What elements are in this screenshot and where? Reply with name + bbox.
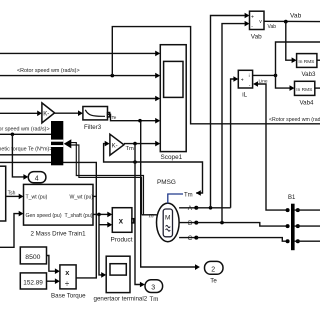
machine PMSG <box>157 179 193 242</box>
svg-text:152.89: 152.89 <box>23 279 43 286</box>
block Tsh (clipped at left edge) <box>0 166 16 221</box>
svg-text:Vab: Vab <box>268 24 277 30</box>
wire rotor speed bypass to right edge <box>112 27 320 124</box>
svg-text:PMSG: PMSG <box>157 179 176 186</box>
constant 152.89 <box>20 273 46 289</box>
svg-text:Te: Te <box>112 115 117 120</box>
wire B1 right outputs <box>295 210 320 241</box>
current measurement iL <box>238 70 252 98</box>
svg-text:K-: K- <box>43 111 49 117</box>
wire scope input 3 <box>0 96 160 102</box>
gain K- (gain1) <box>42 103 55 123</box>
RMS block Vab4 <box>295 81 320 106</box>
svg-text:B1: B1 <box>288 195 296 201</box>
constant 8500 <box>20 247 46 264</box>
wire gen speed input <box>0 211 24 248</box>
svg-text:Line: Line <box>259 79 268 85</box>
svg-text:<Rotor speed wm (rad/s)>: <Rotor speed wm (rad/s)> <box>0 127 50 133</box>
svg-text:Tsh: Tsh <box>8 190 16 196</box>
wire base torque line exiting left <box>0 162 96 278</box>
svg-text:Base Torque: Base Torque <box>51 293 86 300</box>
wire T_shaft riser to terminal2 <box>99 214 106 277</box>
node port A <box>179 205 198 212</box>
wire phase C to B1 <box>196 238 286 242</box>
wire Tm drop to outport 3 <box>135 144 145 288</box>
svg-text:In RMS: In RMS <box>296 87 312 93</box>
wire Vab + sense <box>211 13 250 208</box>
scope genertaor terminal2 <box>94 256 148 302</box>
node port C <box>179 235 198 242</box>
wire W_wt stub <box>93 195 96 197</box>
svg-text:÷: ÷ <box>65 279 69 288</box>
svg-text:M: M <box>165 215 170 222</box>
wire drop to outport 4 <box>12 134 28 179</box>
svg-text:Vab4: Vab4 <box>300 100 315 107</box>
svg-text:<Electromagnetic torque Te (N*: <Electromagnetic torque Te (N*m)> <box>0 146 52 152</box>
wire product input 2 <box>99 222 112 228</box>
svg-text:Product: Product <box>111 237 133 244</box>
svg-text:Te: Te <box>210 278 217 285</box>
wire Tsh to 2MDT T_wt <box>6 194 24 200</box>
svg-text:genertaor terminal2: genertaor terminal2 <box>94 296 148 303</box>
svg-text:In RMS: In RMS <box>298 59 314 65</box>
outport 2 Te <box>205 261 224 284</box>
node port B <box>179 220 198 227</box>
svg-text:W_wt (pu): W_wt (pu) <box>70 194 94 200</box>
svg-text:Scope1: Scope1 <box>161 154 183 161</box>
product block <box>111 208 134 244</box>
scope Scope1 <box>160 45 186 161</box>
svg-text:m: m <box>149 214 154 220</box>
svg-text:Vab: Vab <box>290 13 302 20</box>
wire Tm blue <box>168 194 183 203</box>
svg-text:T_shaft (pu): T_shaft (pu) <box>65 213 93 219</box>
wire bus selector out2 torque <box>0 154 51 156</box>
svg-text:+: + <box>251 14 254 20</box>
wire measurement bus m to bus selector (thick double) <box>64 139 157 215</box>
outport 4 <box>28 172 46 183</box>
wire phase B to B1 <box>196 221 286 226</box>
svg-text:A: A <box>188 205 193 212</box>
svg-text:+: + <box>241 78 244 84</box>
svg-text:3: 3 <box>151 285 155 292</box>
svg-text:Tm: Tm <box>184 192 193 198</box>
svg-text:<Rotor speed wm (rad/s)>: <Rotor speed wm (rad/s)> <box>269 117 320 123</box>
outport 3 Tm <box>145 280 163 303</box>
svg-text:Gen speed (pu): Gen speed (pu) <box>26 213 62 219</box>
svg-text:Tm: Tm <box>126 146 135 152</box>
svg-text:x: x <box>119 216 124 225</box>
svg-text:Filter3: Filter3 <box>84 124 102 131</box>
svg-text:4: 4 <box>35 176 39 183</box>
bus B1 <box>286 195 300 250</box>
svg-text:<Rotor speed wm (rad/s)>: <Rotor speed wm (rad/s)> <box>17 68 80 74</box>
wire Te drop to outport 2 <box>141 121 200 270</box>
wire Vab - sense <box>222 21 250 223</box>
svg-text:iL: iL <box>242 91 247 98</box>
wire T_shaft to Product <box>93 212 112 218</box>
svg-text:K-: K- <box>112 143 118 149</box>
svg-text:i: i <box>249 73 250 78</box>
wire bus selector out1 rotor speed <box>0 133 51 137</box>
svg-text:Tm: Tm <box>150 296 159 303</box>
divide block Base Torque <box>51 265 86 300</box>
svg-text:2 Mass Drive Train1: 2 Mass Drive Train1 <box>31 230 87 237</box>
wire gain K- input <box>0 111 42 117</box>
svg-text:2: 2 <box>211 266 215 273</box>
wire gain2 to scope input 5 <box>124 141 160 147</box>
wire 8500 to divide <box>47 256 60 275</box>
wire scope input 1 <box>0 51 160 57</box>
wire 152.89 to divide <box>47 278 60 284</box>
wire i line exit right <box>276 42 320 91</box>
wire iL minus to B1 <box>253 81 287 210</box>
wire scope input 2 rotor speed <box>0 73 160 79</box>
svg-text:8500: 8500 <box>25 254 40 261</box>
voltage measurement Vab <box>250 11 265 40</box>
RMS block Vab3 <box>297 54 320 78</box>
subsystem 2 Mass Drive Train1 <box>24 184 94 237</box>
wire Filter3 to scope input 4 <box>108 114 161 123</box>
wire iL output i <box>253 74 278 78</box>
svg-text:Vab: Vab <box>251 34 262 41</box>
wire gain1 to Filter3 <box>55 110 83 116</box>
svg-text:B: B <box>188 220 192 227</box>
wire phase A to iL <box>196 76 238 209</box>
transfer fcn Filter3 <box>83 107 110 131</box>
svg-text:T_wt (pu): T_wt (pu) <box>26 194 48 200</box>
gain K- (gain2 Tm) <box>110 134 124 155</box>
wire gain2 input riser <box>104 141 203 196</box>
wire Vab to RMS Vab3 <box>286 22 297 63</box>
wire Vab output <box>264 20 320 24</box>
svg-text:Vab3: Vab3 <box>302 71 317 78</box>
bus selector (flipped) <box>51 121 63 165</box>
svg-text:C: C <box>188 235 193 242</box>
